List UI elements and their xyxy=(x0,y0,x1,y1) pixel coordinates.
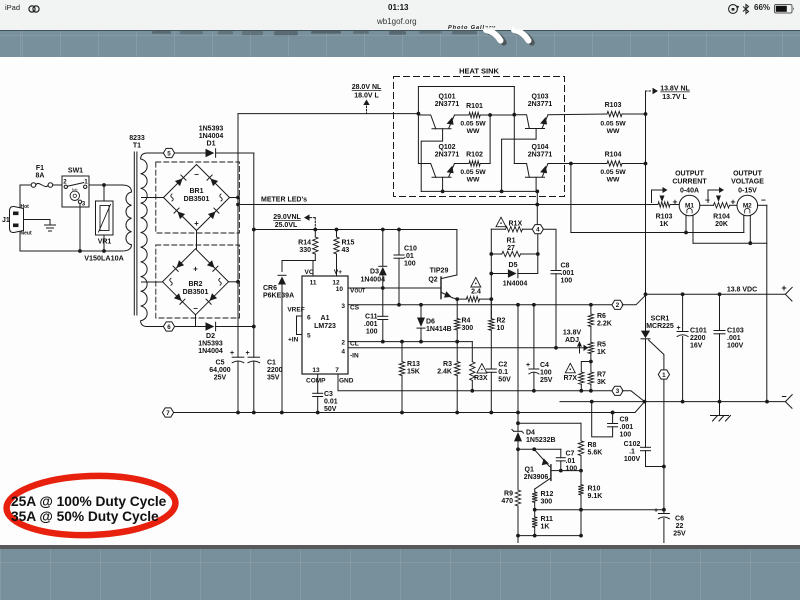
svg-text:1N4004: 1N4004 xyxy=(360,277,385,284)
svg-text:R11: R11 xyxy=(541,516,554,523)
svg-text:25.0VL: 25.0VL xyxy=(275,222,298,229)
transistor Q1 2N3906 xyxy=(550,465,552,481)
R8 zigzag xyxy=(578,441,583,456)
svg-text:2200: 2200 xyxy=(267,367,283,374)
R3X zigzag xyxy=(470,362,475,381)
node 6 xyxy=(148,326,164,328)
capacitor C5 64,000 25V xyxy=(232,356,244,358)
rail x=253.8 (29V) xyxy=(253,153,255,357)
svg-text:1N5393: 1N5393 xyxy=(198,341,223,348)
line y=509.7 xyxy=(535,509,664,511)
svg-text:2: 2 xyxy=(63,179,67,186)
svg-text:R3X: R3X xyxy=(474,375,488,382)
node 1 xyxy=(658,370,669,379)
resistor R104 0.05 5W xyxy=(607,161,622,166)
svg-text:0-15V: 0-15V xyxy=(738,188,757,195)
transformer T1 secondary winding xyxy=(141,153,148,327)
svg-text:−: − xyxy=(194,170,199,179)
meter pin wires xyxy=(685,215,687,232)
resistor R7X (warning triangle) xyxy=(581,362,591,373)
svg-text:6: 6 xyxy=(167,324,171,331)
wire BR2 bottom down xyxy=(195,315,197,327)
svg-text:0.01: 0.01 xyxy=(324,399,338,406)
pin 4 line to R5 wiper xyxy=(348,347,584,349)
resistor R2 10 xyxy=(490,299,492,319)
wire from R104 left xyxy=(570,164,572,233)
svg-text:R15: R15 xyxy=(342,240,355,247)
svg-text:CS: CS xyxy=(350,305,360,312)
wire Q102 emitter to R102 xyxy=(454,163,469,165)
R4 zigzag xyxy=(455,319,460,331)
switch SW1 xyxy=(62,176,89,207)
svg-text:+: + xyxy=(654,508,658,515)
svg-text:R12: R12 xyxy=(541,491,554,498)
svg-text:9.1K: 9.1K xyxy=(588,493,603,500)
svg-text:C9: C9 xyxy=(620,417,629,424)
R9 zigzag xyxy=(515,490,520,506)
capacitor C8 .001 100 xyxy=(543,229,556,270)
wire Q101 base xyxy=(421,129,442,192)
node 7 / ground bus xyxy=(162,408,173,417)
svg-text:.001: .001 xyxy=(727,335,741,342)
svg-text:−: − xyxy=(705,195,710,205)
svg-text:5.6K: 5.6K xyxy=(588,450,603,457)
svg-text:Neut: Neut xyxy=(21,231,32,237)
svg-text:R1X: R1X xyxy=(509,221,523,228)
transformer core xyxy=(133,152,135,315)
svg-text:SCR1: SCR1 xyxy=(651,316,670,323)
svg-text:.001: .001 xyxy=(364,321,378,328)
svg-text:OUTPUT: OUTPUT xyxy=(733,171,763,178)
VREF loop pins 6-5 xyxy=(297,316,303,335)
svg-text:V+: V+ xyxy=(334,269,342,276)
wire M2 minus out xyxy=(758,204,767,206)
resistor R13 15K xyxy=(401,342,403,362)
svg-text:5: 5 xyxy=(167,150,171,157)
svg-text:D3: D3 xyxy=(370,269,379,276)
resistor R6 2.2K xyxy=(590,305,592,314)
resistor R3X (with warning triangle) xyxy=(471,342,473,362)
capacitor C11 .001 100 xyxy=(382,288,384,316)
svg-text:R7: R7 xyxy=(597,371,606,378)
BR1 diodes xyxy=(175,178,183,186)
R7X zigzag xyxy=(579,372,584,384)
svg-text:8A: 8A xyxy=(36,173,45,180)
ADJ up arrow xyxy=(579,345,581,353)
svg-text:1K: 1K xyxy=(541,524,550,531)
svg-text:−: − xyxy=(761,195,766,205)
svg-text:1N4004: 1N4004 xyxy=(198,348,223,355)
svg-text:R9: R9 xyxy=(504,491,513,498)
R6 zigzag xyxy=(588,314,593,327)
svg-text:2: 2 xyxy=(616,302,620,309)
wire node3 to gnd bus xyxy=(622,391,644,402)
Q1 base wire xyxy=(551,470,561,472)
svg-text:+: + xyxy=(676,325,680,332)
svg-text:A1: A1 xyxy=(321,315,330,322)
svg-text:C7: C7 xyxy=(566,451,575,458)
svg-text:50V: 50V xyxy=(324,406,337,413)
svg-text:C4: C4 xyxy=(540,362,549,369)
svg-text:15K: 15K xyxy=(407,368,420,375)
meter M2 xyxy=(737,195,758,216)
svg-text:20K: 20K xyxy=(715,221,728,228)
collector rail left xyxy=(417,87,419,164)
diode D5 1N4004 xyxy=(491,273,508,275)
diode D3 1N4004 xyxy=(382,230,384,267)
wire SW1 pin1 to T1 xyxy=(89,184,122,186)
svg-text:22: 22 xyxy=(676,523,684,530)
svg-text:+: + xyxy=(193,265,198,274)
diode D3 xyxy=(379,267,387,276)
transistor Q101 2N3771 xyxy=(418,115,435,129)
svg-text:F1: F1 xyxy=(36,165,44,172)
svg-text:4: 4 xyxy=(536,227,540,234)
wire node5 to D1 xyxy=(175,152,206,154)
svg-text:2.4K: 2.4K xyxy=(437,368,452,375)
wire Q103 emitter to R103 xyxy=(548,113,607,116)
svg-text:D5: D5 xyxy=(509,262,518,269)
svg-text:D2: D2 xyxy=(206,333,215,340)
svg-text:28.0V NL: 28.0V NL xyxy=(352,84,382,91)
zener diode D4 1N5232B xyxy=(517,423,519,431)
wire meter minus bus xyxy=(693,242,767,244)
GND pin to node3 line xyxy=(338,374,612,391)
capacitor C9 .001 100 xyxy=(612,413,614,424)
svg-text:+: + xyxy=(673,197,678,207)
wire tap to BR2 xyxy=(142,281,163,283)
transistor Q104 2N3771 xyxy=(514,164,529,178)
R2 zigzag xyxy=(489,319,494,331)
svg-text:27: 27 xyxy=(507,245,515,252)
29V rail xyxy=(254,229,457,231)
svg-text:R8: R8 xyxy=(588,442,597,449)
svg-text:C6: C6 xyxy=(675,516,684,523)
svg-text:8233: 8233 xyxy=(129,135,145,142)
svg-text:R103: R103 xyxy=(656,214,673,221)
wire to ground xyxy=(49,220,51,226)
svg-text:D1: D1 xyxy=(207,141,216,148)
diode D5 xyxy=(508,269,517,278)
svg-text:2N3771: 2N3771 xyxy=(528,152,553,159)
svg-text:100V: 100V xyxy=(624,456,641,463)
bridge BR2 DB3501 dashed box xyxy=(156,245,240,318)
D4 column xyxy=(517,305,519,413)
svg-text:T1: T1 xyxy=(133,143,141,150)
svg-text:1N4004: 1N4004 xyxy=(199,133,224,140)
transistor Q102 2N3771 xyxy=(418,164,435,178)
svg-text:C10: C10 xyxy=(404,246,417,253)
svg-text:100V: 100V xyxy=(727,343,744,350)
capacitor C4 100 25V xyxy=(533,305,535,369)
svg-text:C11: C11 xyxy=(365,313,378,320)
svg-text:WW: WW xyxy=(607,128,620,135)
wire Q2 collector riser xyxy=(456,230,458,276)
resistor R3 2.4K xyxy=(456,342,458,362)
svg-text:25V: 25V xyxy=(214,375,227,382)
node 4 xyxy=(532,225,543,234)
svg-text:VREF: VREF xyxy=(287,307,304,314)
svg-text:3: 3 xyxy=(616,388,620,395)
svg-text:13.8 VDC: 13.8 VDC xyxy=(727,286,757,293)
output ground bus xyxy=(560,401,785,403)
svg-text:C2: C2 xyxy=(498,362,507,369)
web page header band xyxy=(0,30,800,57)
svg-text:C5: C5 xyxy=(216,360,225,367)
wire J1 hot up xyxy=(19,185,21,207)
rail 13.8V vertical xyxy=(645,91,647,294)
svg-text:M1: M1 xyxy=(685,203,694,210)
svg-text:4: 4 xyxy=(341,349,345,356)
resistor R15 43 xyxy=(336,230,338,238)
diode D1 1N5393/1N4004 xyxy=(215,149,217,158)
wire J1 ground pin xyxy=(24,219,51,221)
wire J1 neut down xyxy=(19,232,21,252)
svg-text:100: 100 xyxy=(404,261,416,268)
connector J1 (AC plug) xyxy=(10,206,24,232)
svg-text:+: + xyxy=(731,197,736,207)
capacitor C6 22 25V xyxy=(663,510,665,514)
node 3 xyxy=(612,386,623,395)
svg-text:VR1: VR1 xyxy=(98,239,112,246)
wire node2 to 13.8 rail xyxy=(622,295,645,305)
svg-text:.01: .01 xyxy=(404,253,414,260)
SCR1 MCR225 xyxy=(645,294,647,330)
wire AC bottom xyxy=(20,250,122,252)
diode CR6 P6KE39A xyxy=(278,274,286,276)
svg-text:WW: WW xyxy=(467,128,480,135)
transformer T1 primary winding xyxy=(122,185,132,251)
svg-text:0-40A: 0-40A xyxy=(680,188,699,195)
wire M1 to R104 xyxy=(700,204,714,206)
emitter line y=449.3 xyxy=(518,448,561,450)
svg-text:2: 2 xyxy=(341,340,345,347)
svg-text:Q101: Q101 xyxy=(438,94,455,101)
VOUT line pin 10 xyxy=(348,287,441,289)
svg-text:+: + xyxy=(194,219,199,228)
wire BR1 right to rail xyxy=(230,197,239,199)
R7 zigzag xyxy=(588,372,593,384)
svg-text:.001: .001 xyxy=(620,424,634,431)
base rail xyxy=(421,190,537,192)
bulb in SW1 xyxy=(70,191,79,200)
svg-text:0.05 5W: 0.05 5W xyxy=(600,169,626,176)
line y=535.6 xyxy=(518,535,581,537)
resistor R4 300 xyxy=(456,299,458,318)
R13 zigzag xyxy=(399,362,404,376)
svg-text:13: 13 xyxy=(312,367,320,374)
red ellipse annotation xyxy=(6,473,177,538)
svg-text:−: − xyxy=(781,392,786,402)
bridge BR1 DB3501 dashed box xyxy=(156,162,240,233)
svg-text:R5: R5 xyxy=(597,342,606,349)
annotation 29.0VNL xyxy=(310,217,315,219)
wire VC pin 11 xyxy=(312,261,314,277)
IC U1 LM723 xyxy=(302,276,348,374)
capacitor C1 2200 35V xyxy=(248,356,260,358)
svg-text:100: 100 xyxy=(540,370,552,377)
capacitor C102 .1 100V xyxy=(645,402,647,448)
svg-text:ADJ: ADJ xyxy=(565,337,579,344)
resistor R7 3K xyxy=(590,362,592,373)
wire ground bus xyxy=(174,412,635,414)
R14 zigzag xyxy=(313,237,318,254)
chassis ground xyxy=(711,415,729,417)
svg-text:3: 3 xyxy=(341,303,345,310)
wire Q104 emitter to R104 xyxy=(548,163,607,165)
wire gate line down xyxy=(663,379,665,510)
svg-text:R102: R102 xyxy=(466,152,483,159)
wire meter leds line xyxy=(238,204,658,206)
diode CR6 xyxy=(278,277,286,285)
resistor R9 470 xyxy=(517,449,519,490)
svg-text:C101: C101 xyxy=(690,328,707,335)
R1X zigzag xyxy=(506,227,523,232)
SCR gate wire xyxy=(649,340,664,370)
wire 28V rail to heat sink xyxy=(238,113,418,115)
svg-text:WW: WW xyxy=(467,177,480,184)
svg-text:D6: D6 xyxy=(426,319,435,326)
left rail shunt xyxy=(490,229,492,319)
svg-text:1: 1 xyxy=(84,179,88,186)
svg-text:10: 10 xyxy=(336,286,344,293)
svg-text:CR6: CR6 xyxy=(263,285,277,292)
resistor 2.4 zigzag xyxy=(466,296,479,301)
svg-text:CL: CL xyxy=(350,341,359,348)
svg-text:43: 43 xyxy=(342,247,350,254)
svg-text:13.8V: 13.8V xyxy=(563,330,582,337)
svg-text:+: + xyxy=(245,350,249,357)
svg-text:29.0VNL: 29.0VNL xyxy=(273,214,301,221)
VC line to CR6 xyxy=(282,261,315,272)
svg-text:DB3501: DB3501 xyxy=(183,289,209,296)
svg-text:Hot: Hot xyxy=(21,204,30,210)
svg-text:2200: 2200 xyxy=(690,335,706,342)
wire meter return xyxy=(571,232,744,234)
svg-text:10: 10 xyxy=(497,325,505,332)
svg-text:100: 100 xyxy=(366,328,378,335)
svg-text:100: 100 xyxy=(620,432,632,439)
svg-text:Q1: Q1 xyxy=(525,467,534,474)
wire R1X row xyxy=(491,228,505,230)
rail R101/R102 right xyxy=(489,115,491,164)
svg-text:25A @ 100% Duty Cycle: 25A @ 100% Duty Cycle xyxy=(11,494,167,509)
svg-text:R7X: R7X xyxy=(563,375,577,382)
bridge rectifier BR1 DB3501 xyxy=(164,165,230,231)
svg-text:Q104: Q104 xyxy=(531,144,548,151)
resistor R14 330 xyxy=(314,230,316,238)
R8 top line xyxy=(518,422,581,424)
R1 zigzag xyxy=(502,251,521,256)
D4 triangle xyxy=(514,432,522,441)
R10 zigzag xyxy=(578,485,583,495)
svg-text:11: 11 xyxy=(310,280,317,287)
wire node4 down xyxy=(537,234,539,254)
wire tap to BR1 xyxy=(142,197,164,199)
svg-text:DB3501: DB3501 xyxy=(184,196,210,203)
warning triangle R3X xyxy=(477,364,487,374)
svg-text:0.05 5W: 0.05 5W xyxy=(460,121,486,128)
footer band xyxy=(0,545,800,600)
svg-text:35A @ 50% Duty Cycle: 35A @ 50% Duty Cycle xyxy=(11,509,159,524)
svg-text:1K: 1K xyxy=(660,221,669,228)
annotation 13.8V NL xyxy=(646,90,653,92)
svg-text:1N414B: 1N414B xyxy=(426,326,452,333)
R3 zigzag xyxy=(455,362,460,376)
wire to output minus xyxy=(766,205,768,401)
resistor R101 0.05 5W xyxy=(469,112,480,117)
svg-text:0.1: 0.1 xyxy=(498,369,508,376)
capacitor C103 .001 100V xyxy=(719,294,721,330)
svg-text:300: 300 xyxy=(541,499,553,506)
svg-text:64,000: 64,000 xyxy=(209,367,231,374)
svg-text:VOLTAGE: VOLTAGE xyxy=(731,179,764,186)
svg-text:+: + xyxy=(781,283,786,293)
svg-text:D4: D4 xyxy=(526,430,535,437)
diode D1 xyxy=(206,149,215,158)
output terminal - xyxy=(785,395,792,409)
svg-text:+: + xyxy=(230,350,234,357)
BR2 diodes xyxy=(176,260,184,268)
svg-text:1N5232B: 1N5232B xyxy=(526,437,556,444)
svg-text:R10: R10 xyxy=(588,486,601,493)
svg-text:2N3771: 2N3771 xyxy=(528,101,553,108)
svg-text:R2: R2 xyxy=(497,318,506,325)
R12 zigzag xyxy=(532,492,537,502)
svg-text:1N4004: 1N4004 xyxy=(503,281,528,288)
svg-text:300: 300 xyxy=(462,325,474,332)
svg-text:LM723: LM723 xyxy=(314,323,336,330)
heat sink dashed box xyxy=(394,77,565,197)
svg-text:R103: R103 xyxy=(605,102,622,109)
svg-text:.01: .01 xyxy=(566,458,576,465)
svg-text:TIP29: TIP29 xyxy=(430,268,449,275)
svg-text:.1: .1 xyxy=(629,449,635,456)
svg-text:R4: R4 xyxy=(462,318,471,325)
svg-text:18.0V L: 18.0V L xyxy=(354,93,379,100)
R11 zigzag xyxy=(532,517,537,527)
R104 pot zigzag xyxy=(714,203,730,208)
svg-text:100: 100 xyxy=(566,466,578,473)
varistor VR1 V150LA10A xyxy=(103,185,105,201)
ground (AC safety) xyxy=(45,224,56,226)
wire Q104 base xyxy=(535,177,537,191)
diode D6 xyxy=(417,318,425,327)
svg-text:R104: R104 xyxy=(605,152,622,159)
svg-text:Q102: Q102 xyxy=(438,144,455,151)
svg-text:COMP: COMP xyxy=(306,378,326,385)
svg-text:6: 6 xyxy=(307,315,311,322)
svg-text:100: 100 xyxy=(561,277,573,284)
svg-text:35V: 35V xyxy=(267,375,280,382)
svg-text:1: 1 xyxy=(662,372,666,379)
svg-text:3: 3 xyxy=(82,201,86,208)
svg-text:1N5393: 1N5393 xyxy=(199,126,224,133)
wire collector top bus xyxy=(418,86,514,88)
svg-text:5: 5 xyxy=(307,333,311,340)
svg-text:R14: R14 xyxy=(298,240,311,247)
svg-text:-IN: -IN xyxy=(350,353,359,360)
svg-text:R3: R3 xyxy=(443,361,452,368)
svg-text:13.7V L: 13.7V L xyxy=(662,94,687,101)
wire CR6 to ground bus xyxy=(281,285,283,413)
resistor R10 9.1K xyxy=(580,471,582,485)
svg-text:16V: 16V xyxy=(690,343,703,350)
svg-text:V150LA10A: V150LA10A xyxy=(84,254,124,263)
svg-text:2.4: 2.4 xyxy=(471,289,481,296)
resistor R8 5.6K xyxy=(580,423,582,441)
ground symbol xyxy=(719,402,721,416)
